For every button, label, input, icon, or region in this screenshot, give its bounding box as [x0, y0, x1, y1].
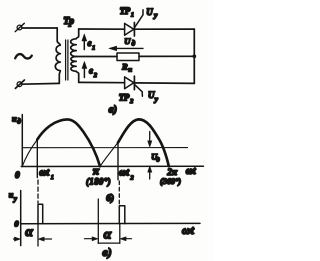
svg-text:ТР: ТР [119, 92, 130, 102]
sine hump2 thin start [100, 143, 118, 167]
wt1 extension below axis [37, 224, 39, 246]
svg-text:б): б) [106, 193, 114, 204]
transformer Tp primary winding [55, 28, 60, 83]
firing line wt2 [117, 143, 119, 180]
wire load to node [139, 55, 194, 57]
sine hump2 thick [118, 119, 169, 166]
dashed line wt2 [118, 181, 120, 204]
Ud dimension lower arrow [148, 166, 152, 179]
svg-text:1: 1 [92, 45, 95, 52]
sine hump1 thin start [22, 140, 37, 167]
svg-text:у: у [13, 195, 18, 203]
alpha1 left arrow [14, 237, 21, 241]
resistor Rn load [117, 53, 139, 61]
dashed line wt1 [37, 180, 39, 203]
thyristor TP2 [125, 76, 135, 90]
thyristor TP1 [125, 23, 135, 37]
svg-text:в): в) [102, 245, 111, 259]
TP1 gate lead [135, 10, 143, 28]
svg-text:e: e [88, 38, 92, 48]
terminal top input [15, 23, 24, 31]
svg-text:α: α [104, 228, 112, 243]
svg-text:U: U [124, 36, 131, 46]
wire top primary [22, 27, 57, 29]
svg-text:2: 2 [129, 175, 134, 182]
alpha2 bottom connector [98, 242, 120, 244]
svg-text:ωt: ωt [119, 167, 130, 178]
svg-text:e: e [89, 65, 93, 75]
wt axis horizontal [21, 165, 203, 167]
svg-text:u: u [12, 114, 17, 123]
terminal bottom input [15, 80, 24, 88]
svg-text:д: д [156, 156, 160, 163]
svg-text:α: α [25, 225, 33, 240]
svg-text:у: у [153, 11, 158, 20]
svg-text:ТР: ТР [120, 6, 131, 16]
pulse 1 [38, 204, 43, 223]
transformer secondary winding with center tap [71, 29, 79, 82]
svg-text:2: 2 [129, 98, 134, 105]
svg-text:ωt: ωt [186, 166, 197, 177]
svg-text:д: д [17, 118, 21, 126]
TP2 gate lead [135, 85, 143, 97]
ud axis vertical [21, 115, 23, 167]
svg-text:1: 1 [131, 12, 134, 19]
svg-text:(180°): (180°) [86, 176, 111, 186]
svg-text:(360°): (360°) [160, 177, 181, 186]
svg-text:д: д [132, 40, 136, 48]
average level line [22, 147, 187, 149]
svg-text:0: 0 [15, 171, 20, 181]
svg-text:U: U [146, 7, 153, 17]
node junction [192, 54, 196, 58]
firing line wt1 [36, 140, 38, 178]
AC source symbol [15, 54, 32, 58]
svg-text:ωt: ωt [182, 223, 195, 237]
wire TP1 cathode to right rail [134, 28, 194, 30]
wire center tap to load [76, 56, 117, 58]
alpha2 left arrow [85, 237, 99, 241]
svg-text:0: 0 [14, 218, 19, 228]
svg-text:Тр: Тр [63, 16, 74, 27]
uy axis vertical [20, 191, 22, 246]
wire bottom primary [22, 82, 59, 85]
wt2 extension below axis [119, 224, 121, 244]
svg-text:а): а) [109, 105, 117, 116]
sine hump1 thick [37, 119, 100, 166]
pi reference line [97, 199, 99, 243]
alpha1 right arrow [38, 237, 51, 241]
transformer core [66, 40, 68, 80]
svg-text:R: R [121, 62, 128, 72]
svg-text:ωt: ωt [39, 167, 50, 178]
pulse 2 [119, 206, 125, 224]
arrow Ud [109, 46, 143, 51]
alpha2 right arrow [120, 237, 131, 241]
wire secondary bottom to TP2 anode [79, 81, 125, 83]
svg-text:2: 2 [93, 72, 98, 79]
wire TP2 cathode to right rail [134, 82, 194, 85]
svg-text:н: н [128, 67, 132, 74]
emf arrow e1 [82, 34, 87, 50]
wire secondary top to TP1 anode [79, 28, 125, 30]
wt axis horizontal bottom [21, 222, 200, 224]
right rail wire [193, 29, 195, 83]
Ud dimension upper arrow [148, 132, 152, 148]
svg-text:у: у [154, 94, 159, 103]
emf arrow e2 [82, 62, 87, 78]
svg-text:1: 1 [51, 174, 54, 181]
